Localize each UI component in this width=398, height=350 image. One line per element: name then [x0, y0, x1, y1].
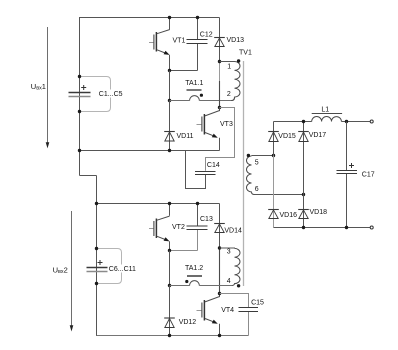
diode VD18	[298, 195, 309, 228]
svg-text:TA1.1: TA1.1	[185, 80, 203, 87]
diode VD14	[214, 204, 225, 249]
current transformer TA1.1	[170, 90, 235, 101]
inductor L1	[312, 114, 342, 122]
junction at C6...C11 top	[95, 247, 98, 250]
svg-text:VD16: VD16	[280, 212, 298, 219]
junction VT4 emitter at bottom rail	[218, 334, 221, 337]
svg-text:L1: L1	[321, 107, 329, 114]
capacitor C1...C5	[69, 77, 91, 112]
junction node A	[168, 69, 171, 72]
svg-text:VT1: VT1	[173, 38, 186, 45]
diode VD16	[268, 210, 279, 219]
wire bottom rail lower section	[97, 335, 249, 337]
wire TV1 pin3 node down to VT4 collector	[219, 248, 221, 294]
current transformer TA1.2	[170, 276, 232, 286]
transistor VT3	[197, 108, 220, 151]
svg-text:1: 1	[227, 64, 231, 71]
junction at C1...C5 top	[78, 75, 81, 78]
transistor VT2	[149, 204, 170, 251]
junction VT4 collector node	[218, 292, 221, 295]
junction VD11 anode	[168, 149, 171, 152]
wire VT2 emitter to C13 bottom	[170, 250, 198, 252]
wire jog between sections	[80, 175, 97, 177]
wire pin1 node down to VT3 collector	[219, 81, 221, 108]
svg-text:C13: C13	[200, 216, 213, 223]
wire VT1 emitter down to TA1.1	[169, 71, 171, 101]
svg-text:VD18: VD18	[310, 209, 328, 216]
svg-text:VD17: VD17	[309, 132, 327, 139]
junction at C1...C5 bottom	[78, 110, 81, 113]
diode VD17	[298, 122, 309, 195]
capacitor C1...C5 group bracket	[80, 77, 111, 112]
svg-text:C15: C15	[251, 299, 264, 306]
transformer TV1 core	[243, 61, 245, 286]
wire L1 to output plus terminal	[341, 121, 370, 123]
node Uвх2 input arrow	[70, 211, 74, 332]
capacitor C15	[220, 294, 259, 336]
junction VD12 anode at bottom rail	[168, 334, 171, 337]
junction pin6 rectifier node	[302, 193, 305, 196]
diode VD15	[268, 122, 279, 156]
svg-text:C1...C5: C1...C5	[99, 91, 123, 98]
svg-text:TA1.2: TA1.2	[185, 265, 203, 272]
svg-text:5: 5	[255, 160, 259, 167]
capacitor C6...C11 group bracket	[97, 249, 122, 284]
junction C12 top at rail	[196, 16, 199, 19]
wire node A (VT1 emitter to C12 bottom)	[170, 70, 198, 72]
junction VT3 collector node	[218, 106, 221, 109]
capacitor C17	[337, 122, 358, 228]
wire left rail lower section	[96, 176, 98, 337]
junction VT2 collector at mid rail	[168, 202, 171, 205]
transistor VT1	[149, 18, 170, 71]
capacitor C12	[187, 18, 208, 71]
junction left rail to lower wire	[78, 149, 81, 152]
wire mid rail lower section	[97, 203, 220, 205]
junction VT1 collector at top rail	[168, 16, 171, 19]
label C1...C5	[98, 90, 124, 98]
junction TV1 pin3 node	[218, 246, 221, 249]
node Uвх1 input arrow	[46, 27, 50, 148]
svg-text:6: 6	[255, 186, 259, 193]
svg-text:4: 4	[227, 278, 231, 285]
junction pin5 rectifier node	[272, 154, 275, 157]
svg-text:VT2: VT2	[172, 224, 185, 231]
TV1 primary winding 1-2	[220, 59, 241, 100]
wire pin6 to rectifier	[255, 194, 304, 196]
junction C17 bottom	[345, 226, 348, 229]
svg-text:C14: C14	[207, 162, 220, 169]
svg-text:3: 3	[227, 248, 231, 255]
svg-text:C12: C12	[200, 31, 213, 38]
capacitor C13	[187, 204, 208, 251]
wire VT2 emitter down to TA1.2	[169, 251, 171, 286]
wire pin5 to rectifier	[252, 155, 274, 157]
junction at C6...C11 bottom	[95, 282, 98, 285]
wire VD13 to TV1 pin1 node	[219, 62, 221, 82]
output terminal plus	[370, 120, 373, 123]
junction TA1.1 wire start	[168, 99, 171, 102]
junction VD18 at bottom rail	[302, 226, 305, 229]
svg-text:VT4: VT4	[221, 307, 234, 314]
svg-text:VD15: VD15	[278, 133, 296, 140]
svg-text:2: 2	[227, 91, 231, 98]
wire lower rail of upper half-bridge	[80, 150, 220, 152]
svg-text:VD11: VD11	[177, 133, 194, 140]
wire pin5 node down to VD16	[273, 156, 275, 228]
svg-text:C6...C11: C6...C11	[109, 266, 136, 273]
wire rectifier bottom rail	[274, 227, 371, 229]
junction C13 top at mid rail	[196, 202, 199, 205]
diode VD13	[214, 18, 225, 62]
svg-text:VD12: VD12	[179, 319, 197, 326]
label C6...C11	[108, 265, 138, 273]
junction mid rail at left rail	[95, 202, 98, 205]
transistor VT4	[197, 294, 220, 336]
junction VD17 at top rail	[302, 120, 305, 123]
svg-text:VD14: VD14	[224, 228, 242, 235]
TV1 secondary winding 5-6	[247, 154, 255, 195]
diode VD11	[164, 101, 175, 151]
junction VT2 emitter node	[168, 249, 171, 252]
wire rectifier top rail	[274, 121, 312, 123]
junction C17 top	[345, 120, 348, 123]
svg-text:VT3: VT3	[220, 121, 233, 128]
wire top rail upper section	[79, 17, 220, 19]
svg-text:TV1: TV1	[239, 49, 252, 56]
svg-text:VD13: VD13	[227, 37, 245, 44]
junction TA1.2 wire start	[168, 284, 171, 287]
output terminal minus	[370, 226, 373, 229]
svg-text:C17: C17	[362, 171, 375, 178]
diode VD12	[164, 286, 175, 336]
TV1 primary winding 3-4	[220, 248, 241, 287]
capacitor C6...C11	[87, 249, 108, 284]
capacitor C14	[186, 108, 235, 189]
wire left rail upper section	[79, 17, 81, 176]
junction TV1 pin1 node	[218, 60, 221, 63]
